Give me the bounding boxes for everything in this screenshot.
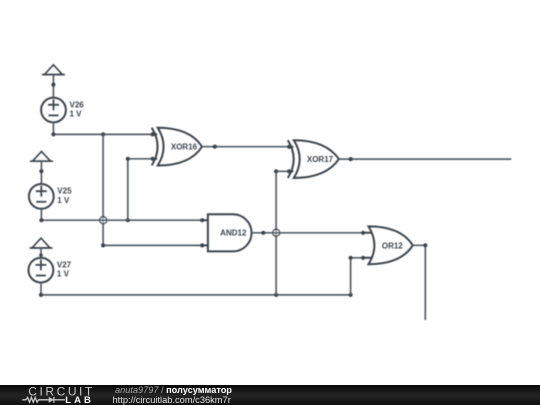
svg-text:V25: V25 xyxy=(57,187,72,196)
junction corner (276,171) xyxy=(274,169,278,173)
label XOR16 xyxy=(171,143,198,152)
pin dot OR12 input A xyxy=(361,231,365,235)
label V26 1 V xyxy=(70,100,85,118)
pin dot OR12 output xyxy=(423,243,427,247)
label V27 1 V xyxy=(57,260,72,278)
wire branch from bottom rail up to XOR17 input B xyxy=(276,171,289,295)
logo resistor-diode squiggle xyxy=(22,397,65,403)
label OR12 xyxy=(382,241,403,250)
wire riser from bottom rail up to OR12 input B xyxy=(351,258,364,295)
node flag (antenna) above V27 xyxy=(30,238,53,248)
XOR gate XOR16 xyxy=(152,128,202,166)
svg-text:XOR17: XOR17 xyxy=(307,155,334,164)
pin dot OR12 input B xyxy=(361,256,365,260)
voltage source V26 xyxy=(41,98,66,123)
svg-text:OR12: OR12 xyxy=(382,241,403,250)
svg-text:anuta9797 / полусумматор: anuta9797 / полусумматор xyxy=(115,385,232,395)
junction corner (351,258) xyxy=(349,256,353,260)
junction branch at (276,295) xyxy=(274,293,278,297)
pin dot AND12 input A xyxy=(200,218,204,222)
label AND12 xyxy=(220,229,247,238)
pin dot XOR17 output xyxy=(349,157,353,161)
svg-text:LAB: LAB xyxy=(65,395,94,405)
label XOR17 xyxy=(307,155,334,164)
wire V27 flag stem xyxy=(40,248,42,258)
junction V26 stem xyxy=(51,83,55,87)
footer bar xyxy=(0,385,540,405)
pin dot XOR16 output xyxy=(213,145,217,149)
label V25 1 V xyxy=(57,187,72,205)
svg-text:AND12: AND12 xyxy=(220,229,247,238)
crossover no-connection hop at (103,220) xyxy=(100,217,107,224)
footer url xyxy=(113,395,231,405)
wire OR12 output right then down xyxy=(413,245,426,320)
wire AND12 output to OR12 input A xyxy=(252,232,364,234)
junction V26 output corner xyxy=(51,132,55,136)
pin dot XOR16 input B xyxy=(151,157,155,161)
svg-text:1 V: 1 V xyxy=(57,196,70,205)
junction branch at (128,220) xyxy=(126,218,130,222)
XOR gate XOR17 xyxy=(288,140,339,178)
wire V26 flag stem xyxy=(52,75,54,98)
logo wordmark LAB xyxy=(65,395,94,405)
voltage source V25 xyxy=(29,184,54,209)
wire XOR17 output to right edge xyxy=(339,158,511,160)
node flag (antenna) above V25 xyxy=(30,151,53,161)
junction V25 output corner xyxy=(39,218,43,222)
svg-text:1 V: 1 V xyxy=(57,270,70,279)
pin dot AND12 input B xyxy=(200,243,204,247)
junction branch at (103,134) xyxy=(101,132,105,136)
pin dot XOR17 input A xyxy=(287,145,291,149)
svg-text:1 V: 1 V xyxy=(70,110,83,119)
pin dot XOR17 input B xyxy=(287,169,291,173)
footer author and title xyxy=(115,385,232,395)
wire branch from V25 up to XOR16 input B xyxy=(128,159,153,220)
junction V27 output corner xyxy=(39,293,43,297)
wire XOR16 output to XOR17 input A xyxy=(202,146,289,148)
wire V27 output down and right along bottom rail xyxy=(41,283,351,295)
svg-text:http://circuitlab.com/c36km7r: http://circuitlab.com/c36km7r xyxy=(113,395,231,405)
wire V25 flag stem xyxy=(40,161,42,184)
voltage source V27 xyxy=(29,258,54,283)
wire V26 output down and right to XOR16 input A xyxy=(53,122,152,134)
pin dot XOR16 input A xyxy=(151,132,155,136)
junction V25 stem xyxy=(39,169,43,173)
junction corner (351,295) xyxy=(349,293,353,297)
crossover no-connection hop at (276,233) xyxy=(273,229,280,236)
OR gate OR12 xyxy=(363,226,413,264)
svg-text:XOR16: XOR16 xyxy=(171,143,198,152)
junction corner (128,159) xyxy=(126,157,130,161)
wire V25 output down and right to AND12 input A xyxy=(41,209,202,220)
junction V27 stem xyxy=(39,253,43,257)
svg-text:V27: V27 xyxy=(57,260,72,269)
pin dot AND12 output xyxy=(261,231,265,235)
junction corner (103,245) xyxy=(101,243,105,247)
AND gate AND12 xyxy=(202,214,251,251)
svg-text:V26: V26 xyxy=(70,100,85,109)
logo wordmark CIRCUIT xyxy=(28,384,95,398)
node flag (antenna) above V26 xyxy=(42,65,65,75)
wire branch from V26 down to AND12 input B xyxy=(103,134,202,245)
